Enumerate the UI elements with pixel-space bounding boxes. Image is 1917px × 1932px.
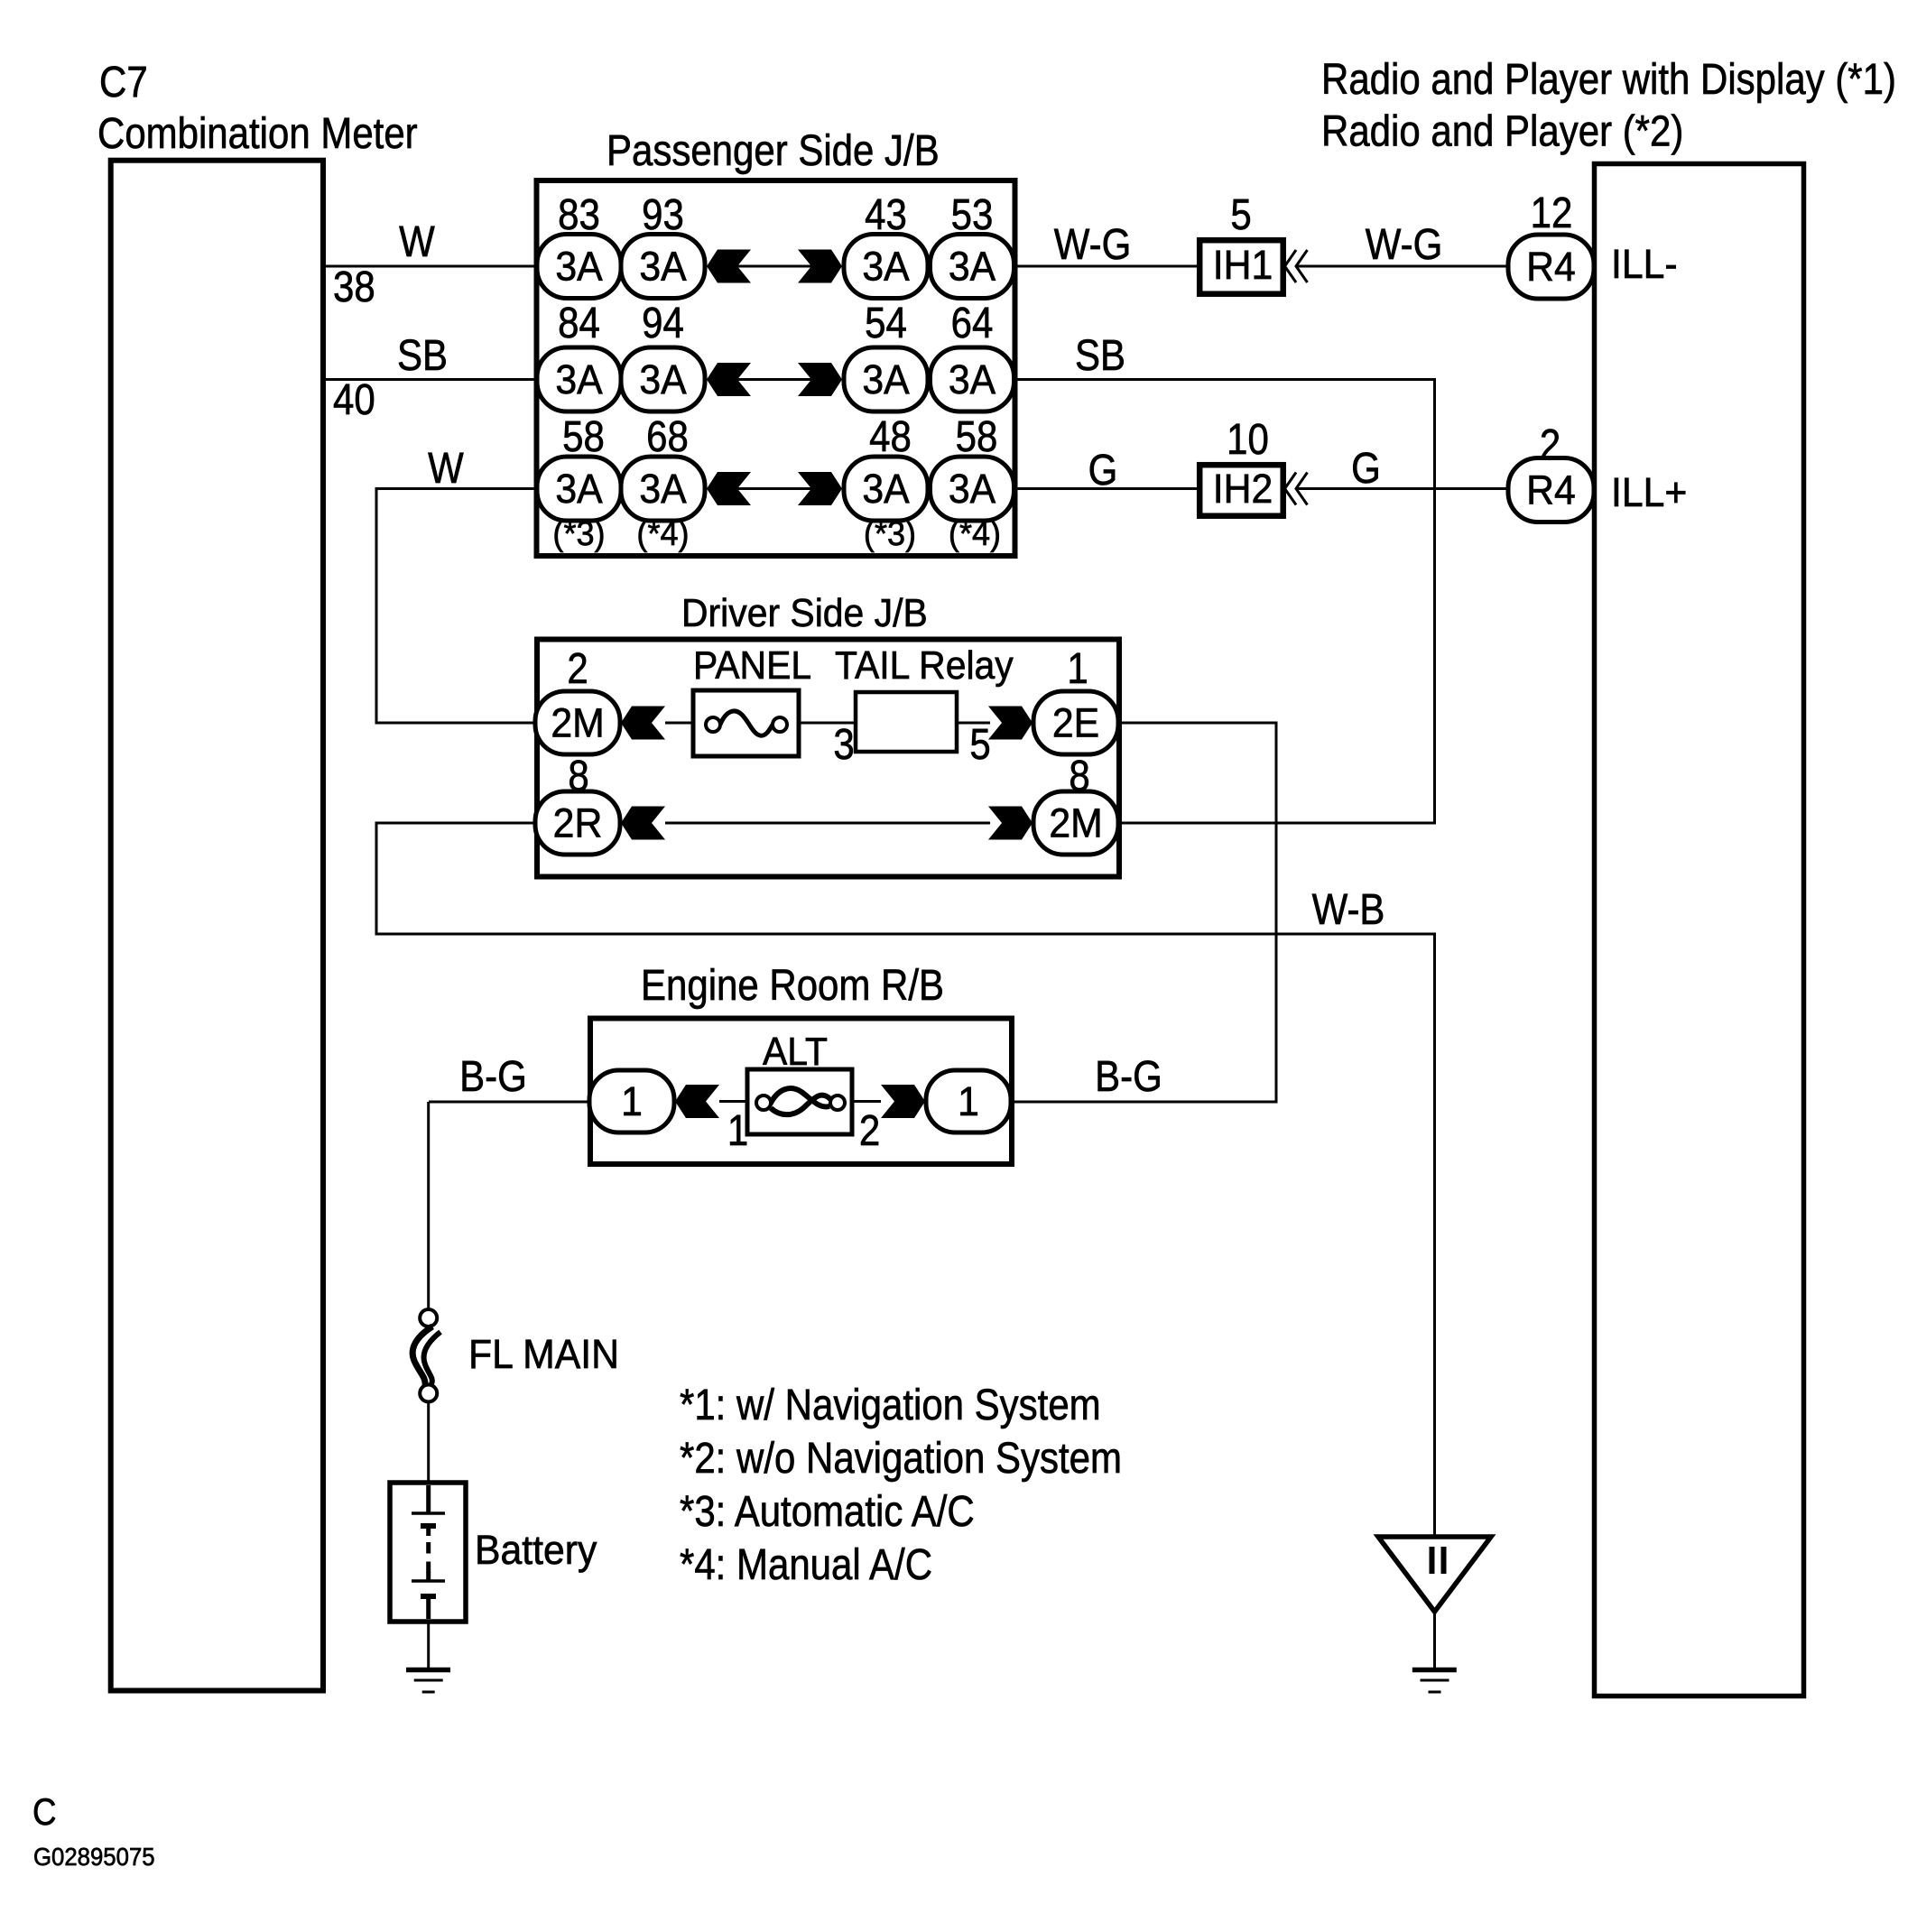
connector 2R pin 8 <box>535 791 620 855</box>
arrow left after 2M <box>621 707 665 740</box>
svg-text:94: 94 <box>642 298 684 347</box>
svg-text:3A: 3A <box>555 245 603 290</box>
svg-text:(*3): (*3) <box>552 513 605 552</box>
svg-text:2M: 2M <box>551 701 604 746</box>
svg-text:FL MAIN: FL MAIN <box>468 1332 619 1377</box>
svg-text:1: 1 <box>1067 643 1088 692</box>
connector 2E pin 1 <box>1033 691 1118 754</box>
arrow double-chevron at IH1 <box>1285 250 1308 282</box>
svg-text:58: 58 <box>956 411 998 460</box>
connector 3A pin 48 <box>844 457 928 521</box>
battery box <box>390 1483 466 1622</box>
wire to ALT fuse left <box>719 1100 749 1103</box>
arrow right row y=295.0 <box>798 250 842 283</box>
connector R4 pin 12 <box>1508 235 1594 299</box>
svg-text:38: 38 <box>333 262 375 310</box>
svg-text:12: 12 <box>1531 188 1573 236</box>
wire B-G right to 2E branch <box>1011 1101 1276 1104</box>
ground II <box>1412 1670 1457 1693</box>
wire battery to B-G junction <box>427 1102 430 1310</box>
svg-text:5: 5 <box>1230 190 1251 238</box>
svg-text:Combination Meter: Combination Meter <box>97 108 418 157</box>
driver side J/B box <box>537 640 1119 877</box>
svg-text:TAIL Relay: TAIL Relay <box>835 644 1014 689</box>
svg-text:SB: SB <box>1075 330 1125 379</box>
fusible link FL MAIN <box>420 1309 437 1327</box>
svg-text:W: W <box>399 217 435 265</box>
wire W from 3A-58 down to driver J/B 2M <box>376 489 536 724</box>
svg-text:3A: 3A <box>862 357 910 402</box>
svg-text:*3: Automatic A/C: *3: Automatic A/C <box>680 1486 975 1535</box>
svg-text:B-G: B-G <box>1095 1051 1162 1100</box>
svg-text:84: 84 <box>558 298 600 347</box>
svg-text:*4: Manual A/C: *4: Manual A/C <box>680 1539 932 1588</box>
arrow left after 2R <box>621 807 665 840</box>
svg-text:(*3): (*3) <box>864 513 916 552</box>
connector 3A pin 64 <box>931 347 1014 411</box>
svg-text:G: G <box>1351 443 1381 492</box>
connector 2M pin 2 <box>535 691 620 754</box>
svg-text:58: 58 <box>562 411 605 460</box>
connector pin 1 left engine <box>589 1070 674 1132</box>
svg-text:68: 68 <box>646 411 689 460</box>
svg-text:*1: w/ Navigation System: *1: w/ Navigation System <box>680 1380 1101 1428</box>
wire inner row y=420.5 <box>737 378 811 381</box>
svg-text:54: 54 <box>865 298 907 347</box>
wire 2E to B-G net <box>1011 723 1276 1102</box>
connector 3A pin 53 <box>931 235 1014 299</box>
connector 3A pin 58 <box>931 457 1014 521</box>
svg-text:48: 48 <box>869 411 912 460</box>
svg-text:1: 1 <box>958 1079 979 1124</box>
arrow left row y=541.5 <box>707 472 751 505</box>
wire 2R row to 2M <box>665 822 990 825</box>
engine room R/B box <box>590 1019 1012 1165</box>
svg-text:Driver Side J/B: Driver Side J/B <box>681 592 928 636</box>
svg-text:C7: C7 <box>99 57 148 106</box>
svg-text:43: 43 <box>865 190 907 238</box>
arrow double-chevron at IH2 <box>1285 473 1308 505</box>
wire W-G IH1 to R4-12 <box>1297 265 1508 268</box>
svg-text:3: 3 <box>833 719 854 768</box>
svg-text:ILL+: ILL+ <box>1611 470 1687 515</box>
connector 3A pin 93 <box>621 235 705 299</box>
svg-text:83: 83 <box>558 190 600 238</box>
arrow left row y=420.5 <box>707 363 751 396</box>
connector R4 pin 2 <box>1508 458 1594 522</box>
wire SB 3A-64 to driver J/B 2M-8 <box>1015 380 1435 824</box>
connector pin 1 right engine <box>926 1070 1011 1132</box>
svg-text:3A: 3A <box>862 245 910 290</box>
svg-text:W-G: W-G <box>1366 219 1443 268</box>
wire TAIL relay pin 5 to 2E <box>957 722 990 725</box>
svg-text:G02895075: G02895075 <box>33 1843 155 1871</box>
svg-text:IH2: IH2 <box>1213 467 1273 512</box>
wire B-G battery branch to fuse oval 1 <box>429 1101 589 1104</box>
svg-text:5: 5 <box>969 719 990 768</box>
svg-text:(*4): (*4) <box>949 513 1001 552</box>
wire W meter pin 38 to 3A-83 <box>323 265 536 268</box>
svg-text:3A: 3A <box>862 467 910 512</box>
svg-text:W-B: W-B <box>1312 884 1385 933</box>
svg-text:40: 40 <box>333 374 375 423</box>
arrow right before engine oval 1 <box>881 1085 925 1118</box>
svg-text:3A: 3A <box>949 245 996 290</box>
svg-text:Radio and Player with Display: Radio and Player with Display (*1) <box>1321 54 1896 103</box>
arrow right before 2M-8 <box>988 807 1033 840</box>
battery internal plates <box>412 1485 445 1619</box>
wire SB meter pin 40 to 3A-84 <box>323 378 536 381</box>
svg-text:ILL-: ILL- <box>1611 242 1678 287</box>
svg-text:3A: 3A <box>639 467 687 512</box>
svg-text:B-G: B-G <box>459 1051 527 1100</box>
svg-text:R4: R4 <box>1526 245 1576 290</box>
svg-text:3A: 3A <box>949 467 996 512</box>
connector 3A pin 83 <box>537 235 621 299</box>
wire PANEL fuse to TAIL relay pin 3 <box>799 722 856 725</box>
ground triangle II marking <box>1432 1547 1444 1574</box>
svg-text:53: 53 <box>951 190 994 238</box>
relay TAIL box <box>856 692 957 752</box>
wire W-G 3A-53 to IH1 <box>1015 265 1198 268</box>
svg-text:64: 64 <box>951 298 994 347</box>
svg-text:3A: 3A <box>639 245 687 290</box>
ground triangle II body <box>1378 1537 1491 1612</box>
connector 3A pin 58 <box>537 457 621 521</box>
connector 3A pin 54 <box>844 347 928 411</box>
wire inner row y=295.0 <box>737 265 811 268</box>
radio and player box <box>1595 164 1804 1696</box>
svg-text:(*4): (*4) <box>636 513 689 552</box>
svg-text:SB: SB <box>397 330 448 379</box>
svg-text:C: C <box>32 1791 57 1834</box>
connector 3A pin 94 <box>621 347 705 411</box>
wire triangle II to ground <box>1433 1612 1436 1668</box>
ground battery <box>406 1670 450 1693</box>
arrow right before 2E <box>988 707 1033 740</box>
svg-text:W-G: W-G <box>1054 219 1132 268</box>
svg-text:2: 2 <box>859 1105 880 1154</box>
connector 2M pin 8 <box>1033 791 1118 855</box>
svg-text:G: G <box>1088 445 1118 494</box>
svg-text:W: W <box>428 443 464 492</box>
connector IH2 box <box>1199 465 1283 516</box>
svg-text:IH1: IH1 <box>1213 243 1273 288</box>
wire G 3A-58 to IH2 <box>1015 487 1198 490</box>
svg-text:10: 10 <box>1227 414 1269 463</box>
passenger side J/B box <box>537 180 1015 556</box>
svg-text:Engine Room R/B: Engine Room R/B <box>641 960 944 1009</box>
wire battery to ground <box>427 1622 430 1668</box>
svg-text:3A: 3A <box>639 357 687 402</box>
svg-text:2E: 2E <box>1052 701 1099 746</box>
combination meter box C7 <box>111 161 323 1691</box>
connector IH1 box <box>1199 240 1283 294</box>
connector 3A pin 84 <box>537 347 621 411</box>
arrow right row y=420.5 <box>798 363 842 396</box>
svg-text:2R: 2R <box>553 801 603 846</box>
arrow left after engine oval 1 <box>675 1085 719 1118</box>
svg-text:Radio and Player (*2): Radio and Player (*2) <box>1321 106 1683 155</box>
wire inner row y=541.5 <box>737 487 811 490</box>
svg-text:93: 93 <box>642 190 684 238</box>
svg-text:Battery: Battery <box>475 1528 597 1573</box>
wire G IH2 to R4-2 <box>1297 487 1508 490</box>
fusible link ALT element <box>770 1088 829 1106</box>
svg-text:PANEL: PANEL <box>693 644 811 689</box>
svg-text:*2: w/o Navigation System: *2: w/o Navigation System <box>680 1433 1122 1482</box>
svg-text:3A: 3A <box>949 357 996 402</box>
arrow right row y=541.5 <box>798 472 842 505</box>
svg-text:Passenger Side J/B: Passenger Side J/B <box>607 125 940 174</box>
fusible link ALT box <box>747 1069 852 1134</box>
svg-text:R4: R4 <box>1526 468 1576 513</box>
svg-text:3A: 3A <box>555 467 603 512</box>
fuse PANEL box <box>693 690 799 756</box>
wire 2M to PANEL fuse <box>665 722 695 725</box>
svg-text:3A: 3A <box>555 357 603 402</box>
connector 3A pin 68 <box>621 457 705 521</box>
svg-text:2M: 2M <box>1049 801 1102 846</box>
wire 2R to W-B net <box>376 823 1435 1537</box>
wire FL MAIN to battery <box>427 1402 430 1484</box>
fuse PANEL element <box>720 711 773 735</box>
svg-text:2: 2 <box>567 643 588 692</box>
wire ALT fuse to right chevron <box>852 1100 881 1103</box>
connector 3A pin 43 <box>844 235 928 299</box>
svg-text:1: 1 <box>621 1079 643 1124</box>
arrow left row y=295.0 <box>707 250 751 283</box>
